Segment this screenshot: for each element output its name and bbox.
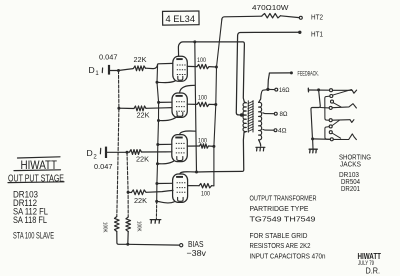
wire R3 to V3 grid (142, 151, 173, 153)
transformer core (248, 101, 253, 133)
wire jack top (308, 89, 329, 91)
screen rail (214, 20, 222, 186)
arm jack4 shorting (332, 133, 341, 138)
svg-text:100K: 100K (102, 222, 108, 233)
wire to 16ohm jack (268, 88, 275, 90)
wire R5 bottom (117, 232, 128, 245)
resistor R4 22K (132, 190, 147, 195)
arm jack2 shorting (333, 103, 341, 107)
ground jacks (309, 149, 317, 153)
svg-text:FOR STABLE GRID: FOR STABLE GRID (250, 231, 308, 240)
wire R1 to V1 grid (146, 63, 173, 68)
svg-text:0.047: 0.047 (99, 53, 118, 62)
arm jack1 shorting (332, 90, 351, 96)
svg-text:HT2: HT2 (311, 12, 323, 21)
node primary CT (240, 113, 243, 116)
node G2 V1 (215, 66, 218, 69)
wire feedback (269, 72, 290, 74)
svg-text:4 EL34: 4 EL34 (166, 13, 196, 24)
tube V2 (172, 93, 187, 117)
bus D1 vertical (117, 71, 119, 217)
svg-text:HIWATT: HIWATT (21, 158, 58, 172)
resistor R3 22K (130, 150, 142, 155)
terminal jack4 tip (330, 138, 333, 141)
secondary winding (259, 102, 262, 140)
terminal 16ohm (275, 88, 278, 91)
wire V4 plate (180, 172, 197, 174)
resistor R2 22K (134, 106, 146, 111)
bus cathode (157, 64, 159, 201)
plate line A (180, 42, 247, 103)
lever jack1 (333, 89, 353, 91)
ground cathode bus (150, 220, 161, 224)
svg-text:OUTPUT TRANSFORMER: OUTPUT TRANSFORMER (250, 194, 317, 203)
wire secondary bottom (259, 140, 261, 146)
svg-text:100: 100 (198, 95, 207, 102)
svg-text:SA 118 FL: SA 118 FL (13, 214, 47, 225)
node 16ohm (266, 88, 269, 91)
wire bias (128, 243, 180, 246)
box 4EL34 (163, 11, 200, 25)
hook jack1 (352, 90, 356, 93)
terminal jack2 shorting (331, 100, 334, 103)
svg-text:100: 100 (201, 190, 210, 197)
resistor 470R (262, 14, 281, 18)
primary winding (243, 103, 246, 132)
wire 470R to HT2 (281, 16, 300, 18)
svg-text:470Ω10W: 470Ω10W (252, 3, 289, 12)
wire node to R1 (119, 69, 134, 71)
svg-text:22K: 22K (136, 155, 149, 164)
capacitor D2 (99, 148, 101, 153)
svg-text:DR201: DR201 (341, 184, 360, 193)
suppressor V2 (157, 101, 160, 104)
node D1 (117, 69, 120, 72)
vertical V2V3 plates (195, 42, 197, 172)
terminal jack3 shorting (329, 125, 332, 128)
resistor G2 V3 100 (187, 145, 199, 147)
terminal jack4 shorting (329, 131, 332, 134)
ground secondary (256, 147, 265, 151)
svg-text:STA 100 SLAVE: STA 100 SLAVE (13, 230, 54, 240)
svg-text:JACKS: JACKS (340, 160, 361, 169)
svg-text:HT1: HT1 (311, 29, 323, 38)
wire V3 plate (180, 131, 196, 135)
wire secondary top (259, 90, 267, 103)
node D2 (126, 151, 129, 154)
node plate B (195, 171, 198, 174)
wire bus to jack2 tip (320, 107, 329, 109)
resistor G2 V1 100 (187, 65, 197, 67)
cathode V2 (159, 116, 178, 120)
wire node to R2 (119, 107, 134, 109)
resistor G2 V2 100 (187, 103, 197, 105)
lever jack4 (333, 134, 356, 140)
wire V2 plate (180, 85, 195, 93)
lever jack2 (332, 104, 356, 108)
node jack top (317, 88, 320, 91)
wire node to R3 (127, 151, 130, 153)
resistor R6 100K (126, 217, 131, 232)
jog jack3short to jack4tip (325, 127, 330, 140)
node G2 V2 (214, 103, 217, 106)
wire V1 plate (178, 44, 179, 57)
terminal jack2 tip (329, 106, 332, 109)
cathode V1 (157, 81, 175, 83)
jack bus (311, 90, 320, 139)
plate line B (197, 132, 247, 173)
wire feedback vert (268, 73, 270, 89)
svg-text:0.047: 0.047 (94, 162, 113, 171)
cathode V3 (158, 161, 174, 164)
node G2 V3 (212, 145, 215, 148)
capacitor D1 (101, 68, 103, 73)
resistor R5 100K (115, 217, 120, 232)
svg-text:D: D (87, 148, 93, 158)
terminal jack1 shorting (330, 95, 333, 98)
svg-text:FEEDBACK.: FEEDBACK. (298, 70, 320, 77)
wire R2 to V2 grid (146, 107, 172, 110)
node plate A (193, 40, 196, 43)
terminal jack1 tip (330, 89, 333, 92)
svg-text:TG7549 TH7549: TG7549 TH7549 (250, 215, 316, 224)
svg-text:100K: 100K (136, 221, 142, 232)
resistor R1 22K (134, 66, 146, 71)
svg-text:8Ω: 8Ω (280, 111, 288, 118)
terminal 4ohm (274, 129, 277, 132)
resistor G2 V4 100 (188, 185, 199, 187)
terminal HT2 (299, 16, 302, 19)
wire R4 to V4 grid (146, 190, 173, 192)
svg-text:−38v: −38v (187, 248, 207, 258)
svg-text:22K: 22K (134, 55, 147, 64)
tube V4 (173, 174, 188, 202)
cathode V4 (157, 201, 175, 203)
wire D2 to node (107, 151, 127, 153)
wire jack ground (312, 139, 314, 149)
suppressor V3 (156, 143, 159, 146)
svg-text:22K: 22K (137, 111, 150, 120)
wire HT1 (236, 32, 299, 115)
node R4 feed (127, 191, 130, 194)
svg-text:4Ω: 4Ω (278, 128, 287, 135)
svg-text:22K: 22K (134, 196, 147, 205)
jog jack1short to jack3tip (325, 96, 330, 120)
title block rules (18, 157, 61, 158)
svg-text:100: 100 (198, 138, 207, 145)
tube V1 (173, 56, 188, 81)
wire 8ohm tap (263, 112, 274, 115)
svg-text:INPUT CAPACITORS 470n: INPUT CAPACITORS 470n (250, 252, 326, 261)
suppressor V4 (155, 182, 158, 185)
terminal jack3 tip (329, 119, 332, 122)
wire jack bottom (313, 138, 331, 140)
wire D1 to node (110, 70, 118, 72)
svg-text:16Ω: 16Ω (279, 87, 290, 94)
wire 4ohm tap (263, 128, 274, 131)
svg-text:RESISTORS ARE 2K2: RESISTORS ARE 2K2 (250, 241, 311, 250)
terminal 8ohm (274, 112, 277, 115)
svg-text:D.R.: D.R. (366, 266, 381, 275)
node R2 feed (117, 107, 120, 110)
hook jack3 (350, 120, 354, 123)
tube V3 (172, 135, 188, 162)
svg-text:100: 100 (197, 57, 206, 64)
terminal HT1 (298, 31, 301, 34)
node bias (126, 243, 129, 246)
svg-text:D: D (89, 65, 95, 75)
svg-text:PARTRIDGE TYPE: PARTRIDGE TYPE (250, 204, 309, 213)
tick jack feed (307, 88, 309, 92)
node jack bottom (311, 137, 314, 140)
terminal feedback (290, 71, 293, 74)
wire HT2 (222, 16, 262, 20)
bus D2 vertical (127, 152, 128, 217)
lever jack3 (332, 119, 350, 122)
wire node to R4 (128, 191, 131, 193)
wire R6 bottom (127, 232, 129, 245)
terminal bias (180, 244, 183, 247)
arm jack3 shorting (332, 120, 340, 126)
